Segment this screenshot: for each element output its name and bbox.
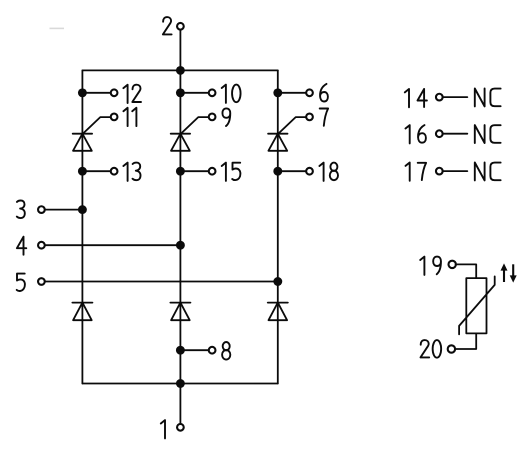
node: pin1 / bottom bus junction: [176, 379, 185, 388]
terminal pin 15: [180, 168, 215, 175]
label pin 3: [17, 201, 25, 219]
wire: pin 4 line: [45, 244, 181, 246]
terminal pin 9 (gate): [209, 114, 216, 121]
label NC 16: [475, 125, 501, 143]
wire: pin 20 lead: [448, 333, 477, 352]
terminal pin 4: [38, 242, 45, 249]
label pin 16: [406, 125, 426, 143]
terminal pin 1: [177, 424, 184, 431]
label pin 17: [406, 163, 427, 181]
terminal pin 18: [278, 168, 313, 175]
terminal pin 11 (gate): [111, 114, 118, 121]
wire: pin 2 lead: [179, 30, 181, 70]
terminal pin 6: [278, 89, 313, 96]
label pin 15: [222, 163, 241, 181]
wire: middle leg vertical: [179, 70, 181, 383]
label NC 17: [475, 163, 501, 181]
label pin 9: [222, 108, 230, 126]
wire: pin 19 lead: [449, 261, 477, 278]
terminal pin 10: [180, 89, 215, 96]
diode D3: [268, 303, 288, 321]
node: T3 cathode junction: [273, 167, 282, 176]
label pin 13: [123, 163, 140, 181]
label pin 5: [17, 274, 25, 291]
thyristor T2: [171, 117, 209, 151]
thyristor T1: [73, 117, 111, 151]
terminal pin 12: [82, 89, 117, 96]
node: T1 anode-top junction: [78, 88, 87, 97]
label pin 11: [123, 108, 136, 126]
terminal pin 3: [38, 206, 45, 213]
wire: pin 3 line: [45, 209, 83, 211]
wire: top bus (pin 2 rail): [82, 69, 277, 71]
node: pin8 junction: [176, 346, 185, 355]
label pin 6: [320, 84, 328, 102]
label pin 14: [405, 89, 427, 107]
label pin 10: [222, 85, 241, 103]
scan smudge artifact: [50, 27, 65, 29]
thyristor T3: [268, 117, 306, 151]
wire: pin 1 lead: [179, 384, 181, 424]
terminal pin 2: [177, 23, 184, 30]
label pin 12: [123, 85, 141, 103]
label pin 1: [161, 420, 165, 438]
thermistor temperature arrows: [501, 263, 517, 282]
node: pin3 / phase U junction: [78, 205, 87, 214]
wire: right leg vertical: [277, 70, 279, 383]
label pin 19: [420, 257, 441, 275]
node: T2 anode-top junction: [176, 88, 185, 97]
wire: pin 5 line: [45, 281, 278, 283]
terminal pin 7 (gate): [306, 114, 313, 121]
label pin 18: [319, 163, 338, 181]
node: pin5 / phase W junction: [273, 277, 282, 286]
thermistor R-th (NTC temperature sensor): [459, 276, 495, 334]
label NC 14: [475, 89, 501, 107]
terminal pin 14 (NC): [436, 94, 467, 101]
terminal pin 5: [38, 278, 45, 285]
node: T3 anode-top junction: [273, 88, 282, 97]
label pin 20: [421, 340, 442, 358]
node: T1 cathode junction: [78, 167, 87, 176]
node: T2 cathode junction: [176, 167, 185, 176]
wire: bottom bus (pin 1 rail): [82, 383, 277, 385]
terminal pin 13: [82, 168, 117, 175]
node: pin2 / top bus junction: [176, 66, 185, 75]
label pin 7: [320, 109, 328, 126]
terminal pin 8: [180, 347, 215, 354]
diode D2: [170, 303, 190, 321]
node: pin4 / phase V junction: [176, 241, 185, 250]
label pin 8: [222, 342, 230, 360]
label pin 4: [17, 237, 26, 255]
terminal pin 17 (NC): [436, 168, 467, 175]
wire: left leg vertical: [81, 70, 83, 383]
diode D1: [72, 303, 92, 321]
label pin 2: [163, 17, 172, 34]
terminal pin 16 (NC): [436, 130, 467, 137]
